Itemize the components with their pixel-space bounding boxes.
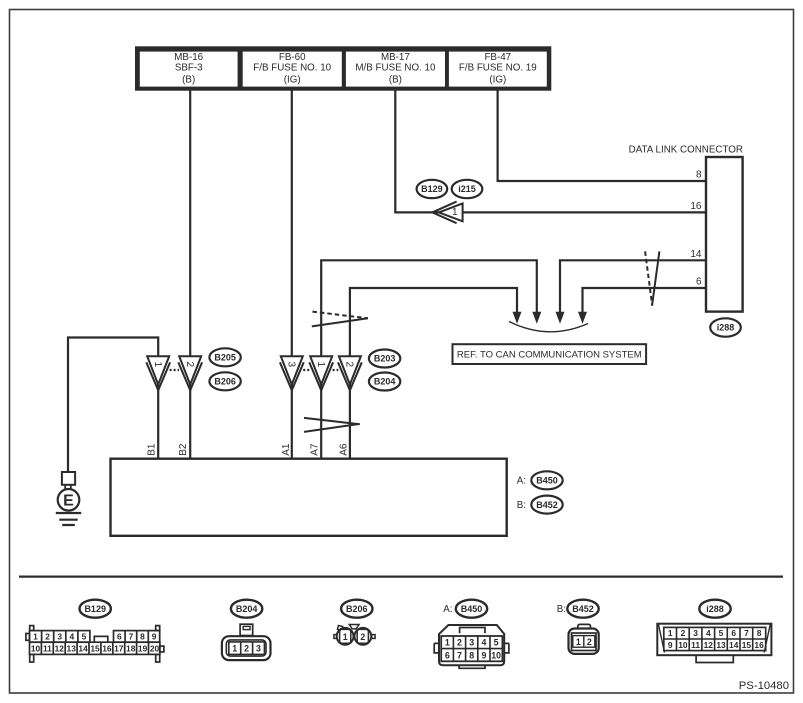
svg-text:17: 17 bbox=[114, 644, 124, 654]
connector triangle pair B205/B206 bbox=[146, 356, 202, 390]
svg-text:2: 2 bbox=[344, 362, 355, 368]
svg-text:16: 16 bbox=[754, 640, 764, 650]
triangle 2 (A6) bbox=[339, 356, 361, 384]
power supply strip bbox=[135, 46, 551, 90]
wire CAN high right (DLC pin 14 to arrow 3) bbox=[560, 260, 706, 313]
oval B129 (top) bbox=[209, 180, 740, 391]
svg-text:14: 14 bbox=[78, 644, 88, 654]
svg-text:7: 7 bbox=[744, 628, 749, 638]
svg-text:15: 15 bbox=[90, 644, 100, 654]
fuse box MB-17 bbox=[346, 52, 445, 87]
svg-text:3: 3 bbox=[57, 632, 62, 642]
module (body integrated unit) box bbox=[111, 459, 507, 536]
svg-text:6: 6 bbox=[731, 628, 736, 638]
svg-text:13: 13 bbox=[716, 640, 726, 650]
B129 pin numbers 1-20 bbox=[31, 632, 160, 654]
notch bbox=[94, 636, 108, 642]
connector view B129 (20-pin) bbox=[26, 626, 164, 662]
svg-text:B450: B450 bbox=[461, 604, 483, 614]
B204 pin numbers 1-3 bbox=[232, 643, 261, 653]
svg-text:4: 4 bbox=[706, 628, 711, 638]
svg-text:16: 16 bbox=[102, 644, 112, 654]
svg-text:1: 1 bbox=[576, 637, 581, 647]
svg-text:B204: B204 bbox=[236, 604, 258, 614]
connector view B204 (3-pin) bbox=[222, 624, 271, 660]
svg-text:(B): (B) bbox=[182, 74, 195, 85]
svg-text:B1: B1 bbox=[147, 443, 158, 456]
wire FB-47 to DLC pin 8 bbox=[498, 91, 706, 182]
bottom row pins 10-20 bbox=[30, 642, 160, 654]
svg-text:B452: B452 bbox=[572, 604, 594, 614]
oval B206 bbox=[209, 372, 240, 390]
svg-text:B2: B2 bbox=[178, 443, 189, 456]
wire MB-16 to B2 bbox=[189, 91, 191, 459]
arrow 2 (CAN high left) bbox=[532, 312, 541, 324]
DLC pin numbers bbox=[690, 170, 702, 288]
oval B205 bbox=[209, 348, 240, 366]
svg-text:20: 20 bbox=[150, 644, 160, 654]
B450 pin numbers 1-10 bbox=[445, 638, 501, 661]
svg-text:PS-10480: PS-10480 bbox=[739, 680, 789, 692]
svg-text:(B): (B) bbox=[389, 74, 402, 85]
svg-text:A1: A1 bbox=[281, 443, 292, 456]
svg-text:(IG): (IG) bbox=[284, 74, 301, 85]
svg-text:3: 3 bbox=[469, 638, 474, 648]
oval label i288 (bottom) bbox=[699, 600, 730, 618]
svg-text:10: 10 bbox=[678, 640, 688, 650]
svg-text:REF. TO CAN COMMUNICATION SYST: REF. TO CAN COMMUNICATION SYSTEM bbox=[457, 350, 642, 361]
svg-text:10: 10 bbox=[31, 644, 41, 654]
oval i215 bbox=[452, 180, 483, 198]
arrow 4 (CAN low right) bbox=[578, 312, 587, 324]
fuse box FB-60 bbox=[243, 52, 342, 87]
connector view B450 (10-pin) bbox=[434, 625, 509, 668]
svg-text:2: 2 bbox=[244, 643, 249, 653]
B452 pin numbers 1-2 bbox=[576, 637, 592, 647]
svg-text:1: 1 bbox=[668, 628, 673, 638]
svg-text:2: 2 bbox=[184, 362, 195, 368]
svg-text:F/B FUSE NO. 10: F/B FUSE NO. 10 bbox=[253, 62, 331, 73]
svg-text:4: 4 bbox=[69, 632, 74, 642]
svg-text:11: 11 bbox=[691, 640, 700, 650]
fuse box FB-47 bbox=[449, 52, 547, 87]
svg-text:2: 2 bbox=[45, 632, 50, 642]
svg-text:8: 8 bbox=[140, 632, 145, 642]
svg-text:(IG): (IG) bbox=[489, 74, 506, 85]
svg-text:13: 13 bbox=[67, 644, 77, 654]
svg-text:B206: B206 bbox=[214, 377, 236, 387]
svg-text:B:: B: bbox=[517, 500, 526, 511]
svg-text:2: 2 bbox=[457, 638, 462, 648]
svg-text:B205: B205 bbox=[214, 353, 236, 363]
wire FB-60 to A1 bbox=[291, 91, 293, 459]
svg-text:5: 5 bbox=[494, 638, 499, 648]
twisted pair mark above A7/A6 bbox=[312, 312, 368, 327]
triangle 2 (from SBF-3) bbox=[179, 356, 201, 384]
svg-text:B204: B204 bbox=[374, 377, 396, 387]
wire CAN low left (A6 to arrow 1) bbox=[350, 288, 517, 357]
svg-text:14: 14 bbox=[690, 249, 702, 260]
svg-text:i215: i215 bbox=[458, 184, 476, 194]
svg-text:2: 2 bbox=[681, 628, 686, 638]
svg-text:B203: B203 bbox=[374, 354, 396, 364]
svg-text:18: 18 bbox=[126, 644, 136, 654]
svg-text:10: 10 bbox=[491, 650, 501, 660]
svg-text:8: 8 bbox=[696, 170, 702, 181]
svg-text:3: 3 bbox=[256, 643, 261, 653]
connector view i288 (16-pin) bbox=[657, 624, 771, 663]
triangle 1 (to ground) bbox=[147, 356, 169, 384]
svg-text:3: 3 bbox=[285, 362, 296, 368]
svg-text:A6: A6 bbox=[338, 443, 349, 456]
svg-text:SBF-3: SBF-3 bbox=[175, 62, 203, 73]
svg-text:1: 1 bbox=[452, 207, 458, 218]
inline connector B129/i215 (left-pointing triangle) bbox=[432, 202, 462, 224]
oval label B204 (bottom) bbox=[231, 600, 262, 618]
DATA LINK CONNECTOR bbox=[629, 145, 743, 312]
oval i288 bbox=[710, 318, 741, 336]
dotted pair link bbox=[170, 369, 179, 371]
svg-text:9: 9 bbox=[481, 650, 486, 660]
ground symbol E bbox=[56, 472, 81, 525]
svg-text:14: 14 bbox=[729, 640, 739, 650]
twisted pair mark near DLC bbox=[645, 251, 659, 305]
wire MB-17 to DLC pin 16 bbox=[395, 91, 706, 213]
top row pins 6-9 bbox=[114, 631, 160, 643]
arc under arrows bbox=[509, 322, 588, 332]
svg-text:2: 2 bbox=[587, 637, 592, 647]
separator line bbox=[19, 575, 783, 577]
connector view B452 (2-pin) bbox=[569, 624, 599, 654]
svg-text:3: 3 bbox=[693, 628, 698, 638]
svg-text:5: 5 bbox=[719, 628, 724, 638]
connector triangles B203/B204 bbox=[280, 356, 362, 390]
svg-text:4: 4 bbox=[481, 638, 486, 648]
svg-text:1: 1 bbox=[232, 643, 237, 653]
wire CAN high left (A7 to arrow 2) bbox=[321, 260, 537, 356]
side tabs bbox=[26, 634, 30, 641]
svg-text:12: 12 bbox=[704, 640, 714, 650]
svg-text:6: 6 bbox=[117, 632, 122, 642]
svg-text:B450: B450 bbox=[536, 476, 558, 486]
svg-text:16: 16 bbox=[690, 201, 702, 212]
svg-text:11: 11 bbox=[43, 644, 52, 654]
top row pins 1-5 bbox=[30, 631, 90, 643]
arrow 1 (CAN low left) bbox=[513, 312, 522, 324]
svg-text:A:: A: bbox=[517, 476, 526, 487]
wire ground branch B1 bbox=[68, 338, 158, 473]
svg-text:7: 7 bbox=[129, 632, 134, 642]
B206 pin numbers 1-2 bbox=[343, 632, 366, 642]
svg-text:1: 1 bbox=[33, 632, 38, 642]
svg-text:9: 9 bbox=[668, 640, 673, 650]
svg-text:2: 2 bbox=[360, 632, 365, 642]
svg-text:B129: B129 bbox=[421, 184, 443, 194]
svg-text:9: 9 bbox=[152, 632, 157, 642]
dotted pair links bbox=[303, 369, 338, 371]
svg-text:5: 5 bbox=[82, 632, 87, 642]
svg-text:6: 6 bbox=[696, 277, 702, 288]
svg-text:15: 15 bbox=[742, 640, 752, 650]
svg-text:i288: i288 bbox=[717, 323, 735, 333]
svg-text:B129: B129 bbox=[84, 604, 106, 614]
triangle 1 (A7) bbox=[310, 356, 332, 384]
oval B203 bbox=[369, 350, 400, 368]
triangle 3 (A1) bbox=[281, 356, 303, 384]
pin labels on module bbox=[147, 443, 350, 456]
i288 pin numbers 1-16 bbox=[668, 628, 764, 650]
svg-text:DATA LINK CONNECTOR: DATA LINK CONNECTOR bbox=[629, 145, 743, 156]
fuse box MB-16 bbox=[140, 52, 238, 87]
svg-text:B452: B452 bbox=[536, 500, 558, 510]
svg-text:12: 12 bbox=[55, 644, 65, 654]
arrow 3 (CAN high right) bbox=[556, 312, 565, 324]
oval label B206 (bottom) bbox=[341, 600, 372, 618]
svg-text:1: 1 bbox=[315, 362, 326, 368]
wire CAN low right (DLC pin 6 to arrow 4) bbox=[583, 288, 707, 314]
svg-text:B:: B: bbox=[557, 604, 566, 615]
oval label B129 (bottom) bbox=[80, 600, 731, 618]
svg-text:M/B FUSE NO. 10: M/B FUSE NO. 10 bbox=[355, 62, 436, 73]
corner tabs bbox=[30, 626, 34, 631]
svg-text:E: E bbox=[63, 492, 74, 509]
svg-text:7: 7 bbox=[457, 650, 462, 660]
svg-text:i288: i288 bbox=[706, 604, 724, 614]
svg-text:8: 8 bbox=[469, 650, 474, 660]
svg-text:6: 6 bbox=[445, 650, 450, 660]
svg-text:8: 8 bbox=[757, 628, 762, 638]
svg-text:F/B FUSE NO. 19: F/B FUSE NO. 19 bbox=[459, 62, 537, 73]
svg-text:A7: A7 bbox=[310, 443, 321, 456]
oval B204 bbox=[369, 373, 400, 391]
twisted pair mark below A7/A6 bbox=[304, 418, 360, 432]
REF. TO CAN box bbox=[453, 344, 647, 364]
wire A7 triangle to module bbox=[320, 384, 322, 459]
svg-text:19: 19 bbox=[138, 644, 148, 654]
svg-text:B206: B206 bbox=[346, 604, 368, 614]
wire A6 triangle to module bbox=[349, 384, 351, 459]
svg-text:1: 1 bbox=[445, 638, 450, 648]
connector view B206 (2-pin) bbox=[334, 625, 375, 645]
svg-text:1: 1 bbox=[343, 632, 348, 642]
svg-text:1: 1 bbox=[152, 362, 163, 368]
svg-text:A:: A: bbox=[443, 604, 452, 615]
module connector ovals bbox=[517, 471, 563, 513]
